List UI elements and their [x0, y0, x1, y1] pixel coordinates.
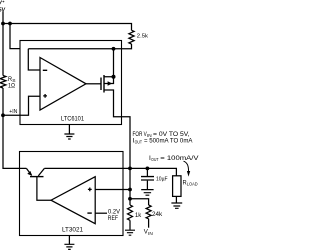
resistor RS 1ohm	[0, 76, 6, 89]
wire RLOAD bottom	[175, 196, 177, 202]
svg-text:10µF: 10µF	[156, 177, 168, 183]
wire top rail V+ to 2.5k	[3, 24, 132, 31]
regulator U2 box LT3021	[20, 152, 124, 236]
svg-text:IN: IN	[148, 231, 153, 237]
wire op-amp output to MOSFET gate	[86, 83, 101, 85]
op-amp A1 triangle	[40, 58, 86, 111]
junction dot at V+ rail left	[1, 22, 5, 26]
transistor M1 MOSFET gate bar	[100, 78, 102, 91]
wire branch from rail down to LTC6101 V+ pin	[10, 24, 20, 49]
node V+ label	[0, 0, 6, 13]
svg-text:+: +	[2, 0, 5, 4]
wire Q1 base to op-amp A2 output	[37, 177, 51, 201]
junction dot drain-rail	[112, 47, 116, 51]
wire +IN pin internal route to op-amp plus input	[20, 96, 40, 115]
capacitor C1 10uF	[146, 168, 148, 176]
wire Q1 collector to output node	[44, 167, 130, 169]
transistor M1 MOSFET channel bar	[103, 75, 105, 93]
wire internal rail corner down to op-amp minus input	[28, 49, 40, 70]
junction dot MOSFET drain-body	[112, 75, 116, 79]
junction dot at V+ rail branch	[8, 22, 12, 26]
junction dot output node at collector line	[128, 167, 132, 171]
op-amp A1 plus sign	[43, 94, 47, 98]
transistor M1 body stub with arrow	[104, 77, 114, 84]
transistor Q1 PNP base bar	[30, 176, 44, 178]
junction dot +IN node	[1, 113, 5, 117]
resistor R1 1k	[128, 205, 133, 220]
transistor Q1 emitter with arrow	[26, 168, 31, 175]
svg-text:1Ω: 1Ω	[8, 82, 15, 89]
svg-text:LOAD: LOAD	[187, 182, 198, 188]
op-amp A2 minus sign	[87, 212, 91, 214]
svg-text:OUT: OUT	[151, 157, 158, 163]
svg-text:REF: REF	[108, 215, 118, 222]
label 0.2V REF	[108, 208, 121, 222]
junction dot 24k tap	[128, 197, 132, 201]
svg-text:1k: 1k	[135, 212, 142, 219]
ground 1k	[125, 230, 135, 235]
wire 24k bottom to VIN	[148, 219, 150, 228]
ground LTC6101 V- pin	[68, 125, 70, 134]
wire V+ vertical down left side to RS	[2, 12, 4, 76]
svg-text:= 100mA/V: = 100mA/V	[160, 155, 199, 162]
wire A2 plus input feedback from output node	[95, 189, 130, 191]
wire 24k branch	[130, 199, 149, 205]
op-amp U1 box LTC6101	[20, 41, 122, 125]
wire A2 minus input to reference	[95, 212, 107, 214]
junction dot feedback tap	[128, 188, 132, 192]
svg-text:+IN: +IN	[9, 109, 17, 115]
svg-text:LTC6101: LTC6101	[61, 116, 84, 123]
resistor R2 24k	[146, 205, 151, 219]
ground LT3021	[68, 236, 70, 245]
wire 2.5k bottom lead into box to drain rail	[28, 44, 131, 49]
transistor M1 drain stub and drain wire to rail	[104, 49, 114, 77]
transistor M1 source stub and source wire out of box	[104, 90, 130, 205]
op-amp A2 triangle	[51, 177, 95, 224]
op-amp A1 minus sign	[43, 69, 47, 71]
junction dot capacitor tap	[146, 167, 150, 171]
transistor Q1 collector diagonal	[38, 168, 44, 176]
svg-text:OUT: OUT	[135, 140, 142, 146]
svg-text:2.5k: 2.5k	[137, 34, 148, 40]
wire RS bottom down to emitter line	[3, 88, 26, 168]
svg-text:LT3021: LT3021	[62, 227, 83, 234]
svg-text:= 500mA TO 0mA: = 500mA TO 0mA	[144, 137, 193, 144]
wire +IN to box	[3, 114, 20, 116]
wire output node to load	[130, 168, 176, 175]
resistor 2.5k	[129, 30, 134, 44]
note text FOR VIN	[133, 131, 200, 163]
ground RLOAD	[171, 203, 182, 208]
resistor RLOAD	[173, 176, 181, 197]
svg-text:24k: 24k	[152, 211, 163, 218]
arrow from IOUT note to RLOAD	[184, 161, 189, 171]
op-amp A2 plus sign	[88, 188, 92, 192]
wire 1k bottom	[129, 220, 131, 230]
ground capacitor	[141, 190, 153, 196]
